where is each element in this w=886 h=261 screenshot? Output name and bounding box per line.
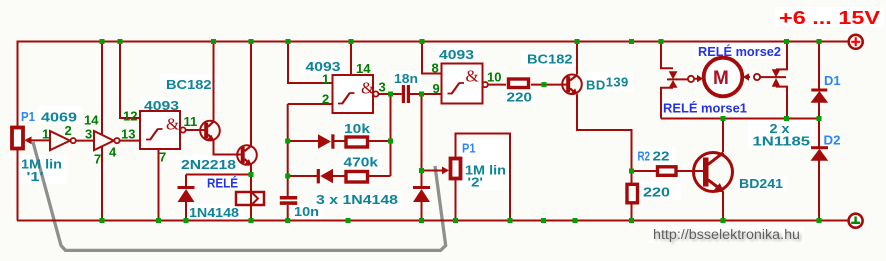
- nand gate U2c 4093 pins 8 9 10: [442, 64, 488, 104]
- svg-text:1N1185: 1N1185: [753, 134, 811, 149]
- svg-text:11: 11: [184, 114, 198, 129]
- wire D2 branch: [818, 119, 820, 221]
- wire timing node vertical: [421, 94, 423, 171]
- svg-text:8: 8: [432, 61, 439, 76]
- svg-text:4: 4: [109, 145, 117, 160]
- junction top rail contact morse2: [784, 39, 789, 44]
- wire right contact upper: [776, 42, 787, 70]
- diode 1N4148 series 10k: [318, 134, 335, 148]
- diode 1N4148 series 470k: [317, 169, 333, 184]
- junction node timing wiper: [419, 168, 424, 173]
- wire inverter U1a output to U1b input: [76, 140, 95, 142]
- wire bottom ground rail: [17, 220, 848, 222]
- svg-text:7: 7: [159, 150, 166, 165]
- svg-text:7: 7: [94, 151, 101, 166]
- svg-text:9: 9: [433, 81, 440, 96]
- junction top rail contact morse1: [659, 39, 664, 44]
- svg-text:1: 1: [322, 72, 329, 87]
- svg-text:10k: 10k: [344, 121, 371, 136]
- wire P1 '2' bottom terminal: [455, 180, 457, 221]
- wire 4093 pin 2 node: [288, 104, 333, 196]
- wire P1 '1' wiper to inverter input pin 1: [30, 139, 50, 141]
- junction node Q3 base: [542, 82, 547, 87]
- wire 4093 pin 12 to supply: [120, 42, 140, 119]
- junction bottom rail 4093 pin7: [156, 218, 161, 223]
- junction node R2 220: [629, 169, 634, 174]
- wire D1 branch: [818, 42, 820, 119]
- svg-text:18n: 18n: [394, 71, 418, 86]
- svg-text:14: 14: [356, 61, 371, 76]
- svg-text:10n: 10n: [294, 204, 319, 219]
- inverter U1a 4069: [50, 131, 76, 150]
- wire left contact upper: [661, 42, 673, 69]
- wire U1b output to gate pin 13: [120, 140, 140, 142]
- wire R2 to BD241 base: [632, 170, 704, 172]
- wire left contact blade: [667, 78, 688, 80]
- junction bottom rail segment c: [573, 218, 578, 223]
- svg-text:BC182: BC182: [166, 77, 212, 92]
- junction bottom rail 4069 pin7: [100, 218, 105, 223]
- transistor Q3 BC182 BD139: [562, 75, 582, 95]
- resistor 220 pulldown: [627, 184, 638, 203]
- flyback diode 1N4148 relay: [178, 186, 195, 202]
- resistor 10k: [346, 137, 368, 147]
- junction bottom rail segment b: [541, 218, 546, 223]
- wire 4093 pin 14 supply: [350, 42, 352, 76]
- junction bottom rail 220 pulldown: [629, 218, 634, 223]
- junction node feedback 10k row: [388, 139, 393, 144]
- wire gate pin 11 output to BC182 base: [186, 129, 205, 131]
- gray potentiometer coupling shaft: [33, 142, 446, 250]
- wire motor bottom node horizontal: [661, 118, 819, 120]
- svg-text:22: 22: [653, 149, 670, 164]
- svg-text:&: &: [466, 67, 479, 86]
- wire P1 '2' wiper: [422, 170, 444, 172]
- wire 2N2218 emitter through relay coil to ground: [250, 165, 252, 221]
- wire gate pin 10 output to 220: [488, 84, 507, 86]
- svg-text:RELÉ morse1: RELÉ morse1: [663, 101, 747, 116]
- svg-text:D2: D2: [824, 133, 841, 148]
- diode D1: [811, 89, 829, 103]
- svg-text:1N4148: 1N4148: [189, 205, 239, 220]
- wire 470k diode row: [288, 175, 391, 177]
- potentiometer P1 '1': [12, 128, 32, 149]
- wire left rail upper: [17, 41, 19, 127]
- wire BD241 collector to motor node: [722, 119, 724, 153]
- wire 4093 pin 8 to supply: [422, 42, 442, 74]
- svg-text:P1: P1: [462, 141, 476, 156]
- junction node motor contact right: [784, 116, 789, 121]
- svg-text:4093: 4093: [439, 47, 474, 62]
- junction node pin2 470k row: [285, 174, 290, 179]
- wire BD241 emitter to ground: [722, 192, 724, 221]
- svg-text:M: M: [713, 68, 729, 89]
- transistor Q2 2N2218: [237, 145, 257, 165]
- svg-text:14: 14: [84, 112, 99, 127]
- motor M: [697, 58, 749, 97]
- wire P1 '2' top terminal loop to ground: [456, 134, 511, 221]
- wire 4069 pin 7 ground: [101, 146, 103, 221]
- junction top rail 4093 pin1: [286, 39, 291, 44]
- junction bottom rail P1-2 bottom: [453, 218, 458, 223]
- svg-text:RELÉ morse2: RELÉ morse2: [698, 44, 781, 59]
- junction node motor D1 D2: [817, 116, 822, 121]
- junction bottom rail P1-2 loop: [508, 218, 513, 223]
- nand gate U2a 4093 pins 12 13 11: [140, 111, 186, 149]
- svg-text:10: 10: [487, 70, 501, 85]
- svg-text:3: 3: [379, 80, 386, 95]
- nand gate U2b 4093 pins 1 2 3: [333, 75, 379, 113]
- svg-text:2: 2: [322, 91, 329, 106]
- junction node motor Q4 collector: [721, 116, 726, 121]
- wire left contact lower: [661, 88, 673, 119]
- junction node pin3 left: [388, 92, 393, 97]
- wire 2N2218 collector to rail: [250, 42, 252, 146]
- svg-text:12: 12: [123, 109, 137, 124]
- wire BC182 collector to rail: [213, 42, 215, 121]
- potentiometer P1 '2': [442, 159, 461, 179]
- svg-text:+6 ... 15V: +6 ... 15V: [779, 8, 880, 28]
- relay contact morse2 right: [754, 69, 781, 86]
- wire right contact blade: [760, 76, 786, 78]
- relay contact morse1 left: [669, 71, 694, 88]
- wire 220 pulldown: [631, 171, 633, 221]
- wire BC182 emitter to 2N2218 base: [214, 141, 241, 155]
- junction bottom rail 10n: [285, 218, 290, 223]
- svg-text:D1: D1: [824, 73, 841, 88]
- svg-text:2: 2: [65, 123, 72, 138]
- relay coil RELE: [236, 192, 264, 206]
- junction top rail 4093 pin14: [349, 39, 354, 44]
- svg-text:R2: R2: [638, 149, 651, 164]
- junction bottom rail 1N4148 anode: [184, 218, 189, 223]
- svg-text:2N2218: 2N2218: [181, 157, 236, 172]
- wire flyback diode link: [186, 175, 251, 221]
- wire 1N4148 to ground: [421, 171, 423, 221]
- junction top rail Q2 collector: [249, 39, 254, 44]
- plus supply terminal: [849, 35, 863, 49]
- diode D2: [811, 146, 829, 161]
- wire BC182 emitter to R2 node: [577, 95, 632, 172]
- capacitor 10n: [280, 196, 297, 205]
- junction top rail 4069 pin14: [100, 39, 105, 44]
- junction bottom rail relay coil: [249, 218, 254, 223]
- svg-text:&: &: [166, 115, 179, 134]
- wire 10n capacitor to ground: [287, 205, 289, 221]
- resistor 470k: [346, 172, 368, 183]
- wire feedback node vertical: [390, 94, 392, 176]
- svg-text:'1': '1': [27, 169, 44, 184]
- wire motor right lead: [745, 76, 751, 78]
- wire 18n to gate pin 9: [410, 93, 442, 95]
- svg-text:&: &: [361, 79, 374, 98]
- inverter U1b 4069: [94, 131, 120, 150]
- transistor Q1 BC182: [200, 121, 220, 141]
- wire left rail lower: [17, 150, 19, 221]
- svg-text:3 x 1N4148: 3 x 1N4148: [316, 192, 398, 207]
- svg-text:4093: 4093: [144, 98, 179, 113]
- svg-text:RELÉ: RELÉ: [207, 176, 238, 191]
- wire top supply rail: [17, 41, 848, 43]
- wire gate pin 3 output to 18n: [378, 93, 402, 95]
- junction top rail D1: [817, 39, 822, 44]
- junction top rail 4093 pin12: [118, 39, 123, 44]
- svg-text:1: 1: [42, 126, 49, 141]
- junction top rail Q1 collector: [211, 39, 216, 44]
- svg-text:3: 3: [85, 127, 92, 142]
- svg-text:http://bsselektronika.hu: http://bsselektronika.hu: [653, 227, 800, 242]
- junction top rail segment: [629, 39, 634, 44]
- wire 4069 pin 14 supply: [101, 42, 103, 136]
- wire 4093 pin 1 to supply: [288, 42, 333, 84]
- svg-text:220: 220: [507, 90, 533, 105]
- junction top rail 4093 pin8: [420, 39, 425, 44]
- svg-text:13: 13: [121, 127, 135, 142]
- resistor R2 22: [658, 167, 677, 176]
- capacitor 18n: [402, 85, 410, 103]
- svg-text:220: 220: [643, 185, 670, 200]
- wire motor left lead: [694, 78, 698, 80]
- junction bottom rail 1N4148 bottom: [419, 218, 424, 223]
- junction node pin2 10k row: [285, 139, 290, 144]
- svg-text:'2': '2': [468, 175, 484, 190]
- wire 10k diode row: [288, 140, 391, 142]
- minus ground terminal: [849, 214, 863, 228]
- junction bottom rail Q4 emitter: [721, 218, 726, 223]
- junction bottom rail segment a: [346, 218, 351, 223]
- svg-text:BD241: BD241: [739, 176, 783, 191]
- junction node pin9 18n: [419, 92, 424, 97]
- wire 4093 pin 7 ground: [158, 149, 160, 221]
- junction bottom rail D2: [817, 218, 822, 223]
- wire 220 to BC182 base: [531, 84, 567, 86]
- svg-text:BC182: BC182: [527, 52, 573, 67]
- junction top rail Q3 collector: [575, 39, 580, 44]
- transistor Q4 BD241: [694, 153, 733, 193]
- diode 1N4148 bottom: [413, 186, 430, 202]
- svg-text:P1: P1: [21, 109, 35, 124]
- wire right contact lower: [776, 87, 787, 119]
- junction node relay flyback: [249, 172, 254, 177]
- resistor 220 base: [509, 79, 529, 88]
- svg-text:470k: 470k: [344, 155, 379, 170]
- wire BC182 collector to rail: [576, 42, 578, 75]
